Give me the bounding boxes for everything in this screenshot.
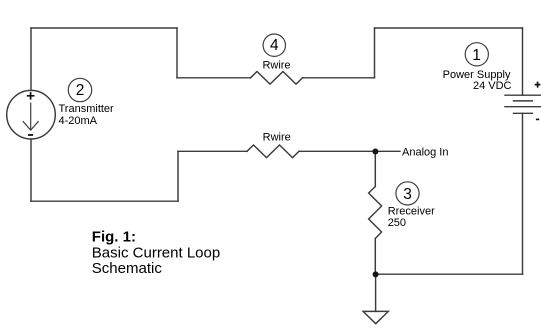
callout circle 3	[396, 182, 419, 205]
wire top-left horizontal	[31, 27, 177, 29]
wire to Rwire top	[177, 77, 251, 79]
node Analog In junction dot	[372, 149, 378, 155]
svg-text:Rreceiver: Rreceiver	[388, 205, 435, 217]
callout circle 2	[68, 78, 91, 101]
current source - sign	[28, 134, 33, 136]
wire Rwire to right step	[303, 77, 375, 79]
resistor R3 Rreceiver (vertical)	[369, 187, 382, 239]
svg-text:1: 1	[472, 47, 481, 64]
svg-text:Fig. 1:: Fig. 1:	[92, 228, 136, 245]
battery plate short upper	[514, 100, 533, 102]
current source arrow head	[23, 121, 39, 130]
wire to Rwire mid	[178, 150, 247, 152]
battery - sign	[536, 118, 539, 120]
wire left mid step up	[177, 151, 179, 201]
callout circle 1	[465, 43, 488, 66]
wire bottom-right horizontal	[376, 273, 523, 275]
wire Rreceiver to bottom junction	[374, 239, 376, 275]
svg-text:Transmitter: Transmitter	[59, 103, 115, 115]
svg-text:4: 4	[270, 37, 279, 54]
wire Rwire mid to Analog In node	[299, 150, 400, 152]
current source circle (transmitter)	[7, 90, 56, 139]
wire left vertical lower	[30, 139, 32, 201]
resistor R4 Rwire (top)	[251, 72, 303, 85]
wire left step down	[176, 28, 178, 78]
wire down to battery +	[522, 28, 524, 95]
svg-text:24 VDC: 24 VDC	[473, 80, 512, 92]
svg-text:Analog In: Analog In	[402, 146, 448, 158]
battery power supply: plate long top	[505, 94, 541, 96]
resistor Rwire (middle)	[247, 145, 299, 158]
ground symbol	[363, 311, 388, 323]
battery plate short bottom	[514, 112, 533, 114]
battery plate long lower	[505, 106, 541, 108]
svg-text:3: 3	[403, 186, 412, 203]
battery + sign	[535, 82, 541, 88]
svg-text:Schematic: Schematic	[92, 260, 163, 277]
wire node down to Rreceiver	[374, 151, 376, 186]
node bottom junction dot	[373, 271, 379, 277]
svg-text:Rwire: Rwire	[262, 59, 290, 71]
wire junction down to ground	[375, 274, 377, 311]
callout circle 4	[263, 34, 285, 56]
svg-text:Rwire: Rwire	[263, 132, 291, 144]
wire left vertical upper	[30, 28, 32, 91]
wire right step up	[374, 28, 376, 78]
wire bottom-left horizontal	[31, 200, 178, 202]
wire battery - down right side	[522, 113, 524, 274]
svg-text:2: 2	[76, 82, 85, 99]
current source arrow shaft	[30, 103, 32, 130]
wire top-right horizontal	[375, 27, 523, 29]
current source + sign	[27, 92, 35, 100]
svg-text:4-20mA: 4-20mA	[59, 115, 98, 127]
svg-text:250: 250	[388, 217, 406, 229]
